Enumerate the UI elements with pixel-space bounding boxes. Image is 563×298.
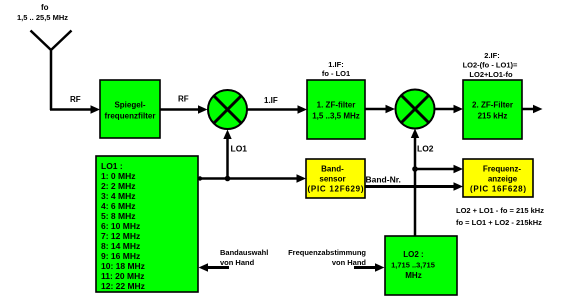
svg-text:LO2-(fo - LO1)=: LO2-(fo - LO1)= bbox=[463, 61, 518, 70]
svg-text:1.IF: 1.IF bbox=[264, 96, 278, 105]
svg-text:1,5 .. 25,5 MHz: 1,5 .. 25,5 MHz bbox=[17, 13, 68, 22]
wire LO2 to mixer M2 bbox=[411, 129, 419, 237]
svg-text:2: 2 MHz: 2: 2 MHz bbox=[101, 181, 135, 191]
svg-text:12: 22 MHz: 12: 22 MHz bbox=[101, 281, 145, 291]
label Bandauswahl von Hand bbox=[220, 248, 268, 267]
svg-text:5: 8 MHz: 5: 8 MHz bbox=[101, 211, 135, 221]
svg-text:215 kHz: 215 kHz bbox=[478, 112, 508, 121]
svg-text:10: 18 MHz: 10: 18 MHz bbox=[101, 261, 145, 271]
svg-text:Spiegel-: Spiegel- bbox=[114, 101, 145, 110]
block LO2 (oscillator) bbox=[385, 236, 457, 295]
svg-text:1.IF:: 1.IF: bbox=[328, 60, 343, 69]
wire LO1 output bus to Band-sensor bbox=[198, 174, 306, 182]
svg-text:1: 0 MHz: 1: 0 MHz bbox=[101, 171, 135, 181]
svg-text:LO2+LO1-fo: LO2+LO1-fo bbox=[469, 70, 513, 79]
svg-text:von Hand: von Hand bbox=[332, 258, 367, 267]
svg-text:7: 12 MHz: 7: 12 MHz bbox=[101, 231, 140, 241]
svg-text:1,5 ..3,5 MHz: 1,5 ..3,5 MHz bbox=[312, 112, 360, 121]
wire LO2 tap to Frequenz-anzeige bbox=[415, 165, 463, 173]
svg-text:4: 6 MHz: 4: 6 MHz bbox=[101, 201, 135, 211]
svg-text:LO2: LO2 bbox=[417, 144, 434, 154]
block Frequenz-anzeige (PIC 16F628) bbox=[463, 159, 533, 197]
wire Bandauswahl arrow into LO1 bbox=[199, 263, 230, 271]
junction LO1 bus / mixer branch bbox=[225, 176, 231, 182]
wire mixer M2 to 2.ZF-Filter bbox=[435, 105, 464, 113]
wire 2.ZF-Filter output bbox=[522, 105, 543, 113]
svg-text:6: 10 MHz: 6: 10 MHz bbox=[101, 221, 140, 231]
label 2.IF: LO2-(fo - LO1)= LO2+LO1-fo (above 2.ZF-Filter) bbox=[463, 51, 518, 79]
svg-text:Band-Nr.: Band-Nr. bbox=[366, 175, 401, 185]
svg-text:LO2 + LO1 - fo = 215 kHz: LO2 + LO1 - fo = 215 kHz bbox=[456, 206, 544, 215]
block LO1 (band list) bbox=[96, 156, 198, 292]
svg-text:9: 16 MHz: 9: 16 MHz bbox=[101, 251, 140, 261]
svg-text:(PIC 12F629): (PIC 12F629) bbox=[308, 185, 364, 194]
block Band-sensor (PIC 12F629) bbox=[306, 159, 365, 198]
svg-text:fo: fo bbox=[41, 3, 49, 12]
wire LO1 to mixer M1 bbox=[223, 130, 231, 179]
junction LO2 / display tap bbox=[412, 166, 418, 172]
svg-text:8: 14 MHz: 8: 14 MHz bbox=[101, 241, 140, 251]
svg-text:Frequenz-: Frequenz- bbox=[483, 165, 522, 174]
svg-text:anzeige: anzeige bbox=[488, 175, 518, 184]
svg-text:fo = LO1 + LO2 - 215kHz: fo = LO1 + LO2 - 215kHz bbox=[456, 218, 542, 227]
block 2. ZF-Filter bbox=[463, 80, 522, 139]
svg-text:LO1: LO1 bbox=[231, 144, 248, 154]
svg-text:Frequenzabstimmung: Frequenzabstimmung bbox=[288, 248, 366, 257]
svg-text:2. ZF-Filter: 2. ZF-Filter bbox=[472, 101, 513, 110]
svg-text:fo - LO1: fo - LO1 bbox=[322, 69, 350, 78]
svg-text:RF: RF bbox=[70, 95, 81, 104]
wire Frequenzabstimmung arrow into LO2 bbox=[354, 263, 385, 271]
svg-text:RF: RF bbox=[178, 95, 189, 104]
mixer M1 bbox=[208, 90, 247, 129]
wire Band-Nr.: Band-sensor to Frequenz-anzeige bbox=[365, 182, 463, 190]
antenna ANT1 bbox=[31, 31, 72, 111]
wire mixer M1 to 1.ZF-filter bbox=[247, 105, 307, 113]
svg-text:2.IF:: 2.IF: bbox=[484, 51, 499, 60]
wire 1.ZF-filter to mixer M2 bbox=[365, 105, 395, 113]
svg-text:(PIC 16F628): (PIC 16F628) bbox=[470, 185, 526, 194]
svg-text:1,715 ..3,715: 1,715 ..3,715 bbox=[391, 261, 435, 270]
svg-text:von Hand: von Hand bbox=[220, 258, 255, 267]
svg-text:Bandauswahl: Bandauswahl bbox=[220, 248, 268, 257]
label 1.IF: fo - LO1 (above 1.ZF-filter) bbox=[322, 60, 350, 78]
wire filter to mixer M1 bbox=[160, 105, 208, 113]
block Spiegelfrequenzfilter bbox=[100, 80, 160, 138]
svg-text:sensor: sensor bbox=[319, 175, 345, 184]
svg-text:11: 20 MHz: 11: 20 MHz bbox=[101, 271, 144, 281]
label Frequenzabstimmung von Hand bbox=[288, 248, 366, 267]
mixer M2 bbox=[396, 90, 435, 129]
svg-text:LO1 :: LO1 : bbox=[101, 161, 123, 171]
svg-text:frequenzfilter: frequenzfilter bbox=[105, 112, 156, 121]
svg-text:Band-: Band- bbox=[321, 165, 344, 174]
block 1. ZF-filter bbox=[307, 80, 365, 139]
svg-text:1. ZF-filter: 1. ZF-filter bbox=[317, 101, 356, 110]
svg-text:LO2 :: LO2 : bbox=[403, 250, 423, 259]
svg-text:3: 4 MHz: 3: 4 MHz bbox=[101, 191, 135, 201]
svg-text:MHz: MHz bbox=[405, 271, 421, 280]
wire RF: antenna to Spiegelfrequenzfilter bbox=[50, 105, 100, 113]
